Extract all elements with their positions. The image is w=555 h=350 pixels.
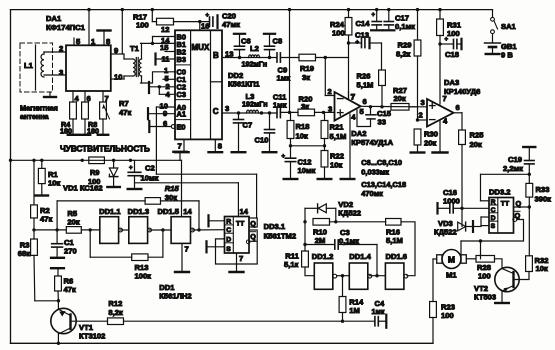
svg-text:3: 3	[421, 98, 425, 107]
svg-text:2,2мк: 2,2мк	[503, 164, 523, 173]
svg-text:9 В: 9 В	[501, 51, 513, 60]
svg-text:R29: R29	[398, 41, 412, 50]
svg-text:6: 6	[456, 103, 460, 112]
svg-text:5,1М: 5,1М	[330, 132, 347, 141]
svg-text:R15: R15	[165, 184, 180, 193]
svg-text:DD3.2: DD3.2	[489, 188, 511, 197]
svg-text:DD1.3: DD1.3	[128, 207, 150, 216]
svg-text:20к: 20к	[394, 94, 406, 103]
svg-text:9: 9	[114, 46, 118, 55]
svg-text:К561ТМ2: К561ТМ2	[264, 232, 297, 241]
svg-text:R30: R30	[424, 130, 438, 139]
svg-text:М: М	[448, 255, 455, 265]
svg-text:DA2: DA2	[351, 129, 366, 138]
svg-text:16: 16	[201, 22, 209, 31]
svg-text:S: S	[491, 223, 496, 230]
svg-text:100: 100	[478, 271, 491, 280]
svg-text:B3: B3	[177, 55, 186, 64]
svg-text:8: 8	[106, 37, 110, 46]
svg-text:R9: R9	[90, 168, 99, 177]
svg-text:3: 3	[59, 68, 63, 77]
svg-text:100: 100	[441, 311, 454, 320]
svg-text:C14: C14	[356, 19, 371, 28]
svg-text:C8: C8	[273, 37, 283, 46]
svg-text:КФ174ПС1: КФ174ПС1	[46, 23, 86, 32]
svg-text:T1: T1	[130, 44, 140, 53]
svg-text:180: 180	[60, 126, 72, 135]
svg-text:20к: 20к	[67, 218, 79, 227]
svg-text:7: 7	[239, 254, 243, 263]
svg-text:0,1мк: 0,1мк	[339, 237, 359, 246]
svg-text:ЧУВСТВИТЕЛЬНОСТЬ: ЧУВСТВИТЕЛЬНОСТЬ	[60, 145, 150, 154]
svg-text:15: 15	[160, 43, 169, 52]
svg-text:192мГн: 192мГн	[242, 60, 268, 69]
svg-text:D: D	[226, 237, 231, 244]
svg-text:КД522: КД522	[434, 228, 457, 237]
svg-text:К561ЛН2: К561ЛН2	[159, 292, 191, 301]
svg-text:Q: Q	[250, 219, 256, 228]
svg-text:192мГн: 192мГн	[242, 100, 268, 109]
svg-text:DD1.4: DD1.4	[349, 252, 371, 261]
svg-text:7: 7	[185, 245, 189, 254]
svg-text:MUX: MUX	[192, 43, 210, 52]
svg-text:R12: R12	[108, 299, 122, 308]
svg-text:47к: 47к	[119, 108, 131, 117]
svg-text:DD1.5: DD1.5	[158, 207, 180, 216]
svg-text:VD1 КС162: VD1 КС162	[63, 184, 103, 193]
svg-text:470мк: 470мк	[361, 189, 383, 198]
svg-text:47мк: 47мк	[222, 20, 240, 29]
svg-text:10к: 10к	[48, 179, 60, 188]
svg-text:C10: C10	[255, 136, 269, 145]
svg-text:100: 100	[136, 21, 149, 30]
svg-text:12: 12	[161, 25, 169, 34]
svg-text:3: 3	[328, 105, 332, 114]
svg-text:2: 2	[328, 87, 332, 96]
svg-text:11: 11	[162, 55, 171, 64]
svg-text:6: 6	[363, 97, 367, 106]
svg-text:C: C	[226, 227, 231, 234]
svg-text:2: 2	[419, 111, 423, 120]
svg-text:R33: R33	[536, 185, 550, 194]
svg-text:R21: R21	[330, 123, 345, 132]
svg-text:7: 7	[178, 142, 182, 151]
svg-text:14: 14	[183, 207, 192, 216]
svg-text:S: S	[226, 246, 231, 253]
svg-text:C13: C13	[355, 31, 369, 40]
svg-text:1мк: 1мк	[277, 74, 291, 83]
svg-text:3: 3	[225, 104, 229, 113]
svg-text:E0: E0	[177, 122, 186, 131]
svg-text:1М: 1М	[349, 306, 360, 315]
svg-text:10мк: 10мк	[141, 174, 159, 183]
svg-text:R25: R25	[470, 131, 485, 140]
svg-text:A1: A1	[177, 110, 186, 119]
svg-text:8,2к: 8,2к	[108, 308, 123, 317]
svg-text:1мк: 1мк	[273, 101, 287, 110]
svg-text:КТ3102: КТ3102	[79, 332, 105, 341]
svg-text:+: +	[282, 154, 286, 160]
svg-text:DA3: DA3	[444, 78, 459, 87]
svg-text:100к: 100к	[135, 272, 152, 281]
svg-text:C: C	[491, 207, 496, 214]
svg-text:C18: C18	[445, 50, 459, 59]
svg-text:7: 7	[351, 93, 355, 102]
svg-text:DD1.6: DD1.6	[386, 252, 408, 261]
svg-text:КР140УД6: КР140УД6	[444, 87, 480, 96]
svg-text:TT: TT	[236, 221, 245, 228]
svg-text:100: 100	[447, 29, 460, 38]
svg-text:20к: 20к	[470, 140, 482, 149]
svg-text:Q: Q	[250, 232, 256, 241]
svg-text:10к: 10к	[536, 264, 548, 273]
svg-text:9: 9	[163, 109, 167, 118]
svg-text:КТ503: КТ503	[474, 293, 496, 302]
svg-text:DD3.1: DD3.1	[264, 222, 286, 231]
svg-text:DA1: DA1	[46, 14, 62, 23]
svg-text:1мк: 1мк	[372, 307, 385, 316]
svg-text:C7: C7	[243, 121, 253, 130]
svg-text:+: +	[372, 13, 376, 19]
svg-text:33: 33	[378, 118, 386, 127]
svg-text:М1: М1	[446, 271, 457, 280]
svg-text:0,033мк: 0,033мк	[361, 168, 389, 177]
svg-text:+: +	[129, 166, 133, 172]
svg-text:10мк: 10мк	[298, 166, 316, 175]
svg-text:+: +	[206, 13, 210, 19]
svg-text:8,2к: 8,2к	[396, 50, 411, 59]
svg-text:1000: 1000	[443, 197, 460, 206]
svg-text:антенна: антенна	[20, 112, 50, 121]
svg-text:КР574УД1А: КР574УД1А	[351, 138, 393, 147]
svg-text:С6...С8,С10: С6...С8,С10	[361, 158, 402, 167]
svg-text:5,1М: 5,1М	[357, 81, 374, 90]
svg-text:68к: 68к	[18, 249, 30, 258]
svg-text:R18: R18	[296, 122, 310, 131]
svg-text:2: 2	[59, 44, 63, 53]
svg-text:DD1.2: DD1.2	[312, 252, 334, 261]
svg-text:D: D	[491, 215, 496, 222]
svg-text:270: 270	[64, 247, 77, 256]
svg-text:B: B	[213, 51, 219, 60]
svg-text:SA1: SA1	[501, 22, 517, 31]
svg-text:10к: 10к	[296, 132, 308, 141]
svg-text:10к: 10к	[330, 161, 342, 170]
svg-text:КД522: КД522	[338, 209, 361, 218]
svg-text:R: R	[491, 199, 496, 206]
svg-text:3к: 3к	[301, 102, 309, 111]
svg-text:20к: 20к	[424, 139, 436, 148]
svg-text:47к: 47к	[40, 215, 52, 224]
svg-text:Q: Q	[515, 211, 521, 220]
svg-text:TT: TT	[501, 200, 510, 207]
svg-text:10: 10	[114, 73, 122, 82]
svg-text:6: 6	[163, 119, 167, 128]
svg-text:5,1М: 5,1М	[386, 236, 403, 245]
svg-text:C19: C19	[508, 155, 522, 164]
svg-text:C2: C2	[145, 164, 155, 173]
svg-text:R26: R26	[357, 72, 371, 81]
svg-text:DD1.1: DD1.1	[99, 207, 121, 216]
svg-text:47к: 47к	[64, 285, 76, 294]
svg-text:Q: Q	[516, 199, 522, 208]
svg-text:C: C	[213, 107, 219, 116]
svg-text:C3: C3	[177, 90, 186, 99]
svg-text:8: 8	[218, 142, 222, 151]
svg-text:180: 180	[87, 126, 99, 135]
svg-text:R22: R22	[330, 152, 344, 161]
svg-text:R7: R7	[119, 99, 129, 108]
svg-text:3к: 3к	[302, 73, 310, 82]
svg-text:R19: R19	[300, 64, 314, 73]
svg-text:+: +	[445, 37, 449, 43]
svg-text:14: 14	[240, 207, 249, 216]
svg-text:С13,С14,С18: С13,С14,С18	[361, 180, 406, 189]
svg-text:5,1к: 5,1к	[284, 260, 299, 269]
svg-text:100: 100	[332, 29, 345, 38]
svg-text:К561КП1: К561КП1	[228, 80, 260, 89]
svg-text:0,1мк: 0,1мк	[395, 22, 415, 31]
svg-text:L1: L1	[24, 61, 34, 70]
svg-text:R: R	[226, 219, 231, 226]
svg-text:L2: L2	[250, 44, 259, 53]
svg-text:13: 13	[225, 50, 233, 59]
svg-text:2М: 2М	[315, 236, 326, 245]
svg-text:390к: 390к	[535, 195, 552, 204]
